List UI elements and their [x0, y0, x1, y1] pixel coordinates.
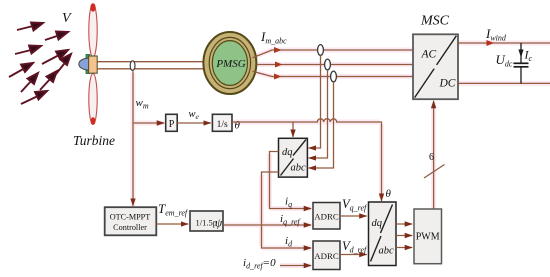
- CT sensor ellipse a: [318, 45, 324, 56]
- svg-text:Turbine: Turbine: [73, 133, 115, 148]
- turbine nose cone: [79, 55, 90, 74]
- svg-text:θ: θ: [235, 120, 241, 132]
- capacitor C: [514, 43, 529, 83]
- wire: V_d_ref to dq/abc 2: [340, 254, 367, 256]
- PWM block: [414, 209, 442, 264]
- wire: i_q feedback from dq/abc 1 to ADRC1: [270, 152, 312, 209]
- ADRC block 2: [313, 241, 340, 270]
- wire: T_em_ref to 1/1.5p: [156, 223, 188, 225]
- wind arrow 9: [21, 91, 47, 104]
- halo tints (jpeg-like): [133, 43, 550, 266]
- svg-text:ψ: ψ: [215, 218, 223, 230]
- turbine blade top: [89, 3, 97, 57]
- wire: theta line with hops to dq/abc blocks: [232, 119, 382, 201]
- svg-text:V: V: [62, 11, 72, 26]
- wire: i_q_ref line to ADRC1: [223, 224, 311, 226]
- wind arrow 7: [21, 73, 38, 92]
- svg-text:1/s: 1/s: [217, 120, 228, 130]
- turbine hub: [89, 56, 98, 73]
- abc to dq block 1: [279, 138, 308, 177]
- shaft (double line): [97, 62, 206, 69]
- I_wind arrow: [487, 40, 495, 46]
- wind arrow 8: [40, 71, 57, 90]
- wire: gate signal 2 to PWM: [396, 235, 412, 237]
- wire: V_q_ref to dq/abc 2: [340, 215, 367, 217]
- P block: [166, 114, 178, 131]
- wire: w_m vertical from sensor down to controller: [132, 71, 134, 206]
- svg-text:P: P: [169, 119, 175, 130]
- svg-text:PMSG: PMSG: [215, 58, 245, 70]
- wire: P to 1/s: [177, 122, 211, 124]
- wire: theta branch into dq/abc 1: [292, 122, 294, 137]
- svg-text:1/1.5p: 1/1.5p: [196, 218, 218, 228]
- wire: current feedback b to dq/abc 1: [309, 70, 328, 158]
- svg-text:Controller: Controller: [113, 223, 147, 232]
- wire: gate signal 1 to PWM: [396, 223, 412, 225]
- wire: i_d feedback from dq/abc 1 to ADRC2: [262, 172, 312, 248]
- I_c arrow on capacitor: [518, 50, 523, 58]
- svg-text:ADRC: ADRC: [314, 251, 339, 261]
- svg-text:dq: dq: [282, 147, 293, 158]
- MSC converter box: [413, 34, 458, 99]
- wire: DC bus top: [458, 42, 550, 44]
- wind arrow 4: [42, 50, 68, 64]
- OTC-MPPT controller box: [105, 207, 157, 235]
- wire: branch to P block: [133, 122, 164, 124]
- wire: PWM to MSC gate line: [433, 101, 435, 209]
- wind arrow group: [9, 23, 71, 105]
- wire: zero reference into ADRC2: [280, 265, 311, 267]
- gate slash: [424, 165, 445, 179]
- dq to abc block 2: [369, 202, 397, 266]
- turbine blade bottom: [89, 74, 97, 125]
- wind arrow 5: [9, 63, 33, 77]
- svg-text:PWM: PWM: [416, 232, 440, 243]
- speed sensor ellipse on shaft: [130, 61, 135, 71]
- PMSG generator: [203, 32, 256, 94]
- svg-text:dq: dq: [372, 218, 383, 229]
- gain block 1/1.5p: [190, 211, 223, 231]
- svg-text:θ: θ: [386, 188, 392, 200]
- CT sensor ellipse b: [325, 59, 331, 70]
- svg-text:OTC-MPPT: OTC-MPPT: [110, 213, 151, 222]
- wire: phase line a: [253, 47, 414, 58]
- svg-text:ADRC: ADRC: [314, 212, 339, 222]
- svg-text:6: 6: [429, 152, 434, 163]
- CT sensor ellipse c: [331, 71, 337, 82]
- wind arrow 3: [15, 46, 41, 55]
- wire: gate signal 3 to PWM: [396, 247, 412, 249]
- svg-text:MSC: MSC: [420, 14, 450, 29]
- wind arrow 6: [56, 54, 71, 74]
- svg-text:abc: abc: [379, 246, 395, 257]
- svg-text:DC: DC: [439, 78, 456, 90]
- wire: current feedback c to dq/abc 1: [309, 82, 334, 168]
- wind arrow 1: [17, 23, 43, 31]
- wire: phase line c: [253, 71, 414, 79]
- svg-text:AC: AC: [421, 49, 437, 61]
- wind arrow 2: [45, 32, 68, 41]
- svg-text:abc: abc: [291, 163, 307, 174]
- wire: current feedback a to dq/abc 1: [309, 55, 321, 148]
- ADRC block 1: [313, 203, 340, 230]
- wire: DC bus bottom: [458, 82, 550, 84]
- integrator block 1/s: [212, 114, 232, 131]
- wire: phase line b: [257, 62, 414, 68]
